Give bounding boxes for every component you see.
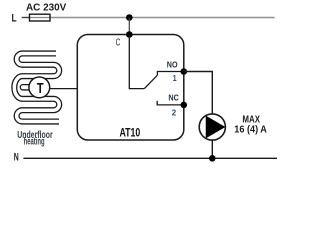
svg-text:heating: heating [24, 137, 45, 148]
fuse F1 [30, 14, 51, 21]
svg-text:AT10: AT10 [120, 125, 141, 139]
svg-text:C: C [116, 38, 121, 49]
thermostat AT10 box [77, 35, 184, 141]
heating cable serpentine [14, 53, 60, 121]
svg-text:AC 230V: AC 230V [26, 3, 66, 14]
svg-text:16 (4) A: 16 (4) A [234, 125, 267, 136]
sensor T circle [29, 77, 50, 98]
wire L to C [128, 18, 130, 35]
pump rotor triangle [206, 116, 226, 139]
junction C on box edge [126, 31, 133, 38]
wire N [23, 157, 277, 159]
wire L main [50, 17, 275, 19]
svg-text:NO: NO [167, 61, 178, 70]
junction NC terminal [181, 102, 188, 109]
junction NO terminal [181, 68, 188, 75]
wire NO to pump [184, 72, 213, 115]
contact NC [157, 101, 184, 105]
wire pump to N [211, 140, 213, 159]
svg-text:NC: NC [168, 94, 179, 103]
wire sensor to box [45, 88, 78, 90]
wire C to relay common [129, 35, 144, 89]
svg-text:T: T [37, 80, 44, 97]
pump M1 [199, 114, 225, 140]
svg-text:2: 2 [172, 108, 177, 118]
svg-text:1: 1 [173, 73, 177, 83]
junction on L [126, 14, 133, 21]
sensor conduit capsule [23, 84, 38, 91]
contact NO [157, 72, 183, 76]
wire L left stub [22, 17, 30, 19]
svg-text:L: L [12, 13, 17, 25]
svg-text:N: N [14, 152, 19, 164]
relay arm [144, 75, 157, 88]
junction on N [209, 155, 216, 162]
wire L through fuse [30, 17, 50, 19]
